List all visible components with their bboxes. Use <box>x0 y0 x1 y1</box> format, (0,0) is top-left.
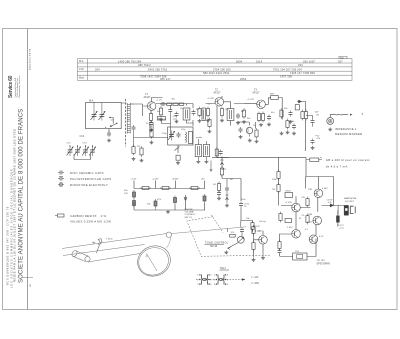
svg-text:30n: 30n <box>247 118 250 120</box>
transistor T1 <box>147 102 156 111</box>
IF transformer MF1 <box>183 108 190 120</box>
supply rail wire <box>134 181 205 189</box>
resistor R32 <box>208 118 211 129</box>
legend cap symbol 3 <box>58 183 64 187</box>
wire preamp chain <box>278 158 280 206</box>
arrow wafer <box>242 278 245 280</box>
ferrite loop antenna frame <box>86 103 122 129</box>
svg-text:2 - WW: 2 - WW <box>251 283 259 285</box>
svg-text:SW 1B: SW 1B <box>210 246 218 248</box>
bypass capacitor C4 <box>149 121 153 127</box>
capacitor C6 <box>168 108 172 114</box>
resistor R35 <box>306 197 309 208</box>
transistor T4 <box>292 203 301 212</box>
dial drum inner <box>135 243 173 279</box>
electrolytic C20 <box>336 216 339 223</box>
wire to T1 base <box>134 104 148 116</box>
capacitor C9 <box>236 113 240 119</box>
spring arrow <box>92 242 95 244</box>
wire T9 emitter ground <box>262 252 264 256</box>
dial cord line lower <box>63 245 145 256</box>
ground C13 <box>311 146 315 149</box>
svg-text:40n: 40n <box>157 111 160 113</box>
transistor T6 <box>313 216 322 225</box>
ground C10 <box>267 123 271 126</box>
svg-text:15k: 15k <box>272 189 275 191</box>
svg-text:260 1007: 260 1007 <box>303 59 315 63</box>
capacitor C5 on bus <box>160 102 166 106</box>
svg-text:T6B: T6B <box>308 214 313 216</box>
IF can B <box>203 145 209 157</box>
svg-text:10V: 10V <box>124 193 128 195</box>
resistor R10 <box>242 108 245 119</box>
svg-text:Edition Service S.A. 2/8: Edition Service S.A. 2/8 <box>29 48 32 70</box>
svg-text:40n: 40n <box>271 112 274 114</box>
svg-text:1k: 1k <box>253 125 255 127</box>
spring tensioner <box>97 239 103 253</box>
svg-text:1305 147 7305 805: 1305 147 7305 805 <box>290 71 315 75</box>
tone cap C21 <box>240 228 244 234</box>
variable capacitor gang A2 <box>74 146 81 156</box>
resistor R21 <box>217 182 220 193</box>
ground R10 <box>242 120 246 123</box>
resistor chain R27 <box>252 225 255 236</box>
svg-text:SOCIETE ANONYME AU CAPITAL DE: SOCIETE ANONYME AU CAPITAL DE 8 000 000 … <box>19 109 25 283</box>
wire bus to T2 <box>206 96 223 105</box>
bottom rail wire <box>134 202 205 210</box>
svg-text:DISC CERAMIC CAPS: DISC CERAMIC CAPS <box>70 171 104 175</box>
transistor T5 <box>314 189 323 198</box>
resistor R23 <box>277 170 280 181</box>
wire T1 collector to MF1 <box>152 98 193 127</box>
resistor R8 <box>206 107 209 118</box>
wire output <box>280 234 293 257</box>
svg-text:IMPEDANCE 1: IMPEDANCE 1 <box>335 127 357 131</box>
cord beyond pulley <box>171 227 246 234</box>
alignment data table <box>78 56 353 80</box>
resistor R2 <box>140 146 143 157</box>
capacitor C22 <box>175 112 179 118</box>
capacitor C3 <box>132 125 136 131</box>
wire driver <box>296 158 306 230</box>
svg-text:305 147: 305 147 <box>160 77 171 81</box>
resistor R5 on bus <box>179 103 184 105</box>
ground T9 emitter <box>261 256 265 259</box>
wire drops from bus <box>161 104 180 108</box>
ground R32 <box>208 130 212 133</box>
capacitor C13 <box>311 139 315 145</box>
ground R13 <box>280 132 284 135</box>
svg-text:SW 2: SW 2 <box>220 267 227 270</box>
svg-text:3761 204 207 205 204: 3761 204 207 205 204 <box>273 67 302 71</box>
capacitor C19 <box>278 249 282 255</box>
ground below R6 <box>159 118 163 121</box>
svg-text:Mod.: Mod. <box>79 77 85 80</box>
svg-text:Service 60: Service 60 <box>8 75 14 98</box>
detector transformer MF3 <box>271 96 279 100</box>
resistor R36 <box>306 214 309 225</box>
antenna coil ladder <box>127 103 130 134</box>
svg-text:CV1: CV1 <box>80 135 85 138</box>
wire to earphone socket <box>322 205 345 214</box>
mid rail wire <box>281 177 334 236</box>
table row labels <box>79 60 85 80</box>
IF can feed resistor <box>215 147 218 158</box>
table data row 5 <box>140 75 292 82</box>
svg-text:5004: 5004 <box>236 59 243 63</box>
wire T2 emitter down <box>217 106 229 158</box>
earphone socket body <box>344 205 348 215</box>
dial cord to drum <box>88 254 140 263</box>
ground below R9 <box>220 119 224 122</box>
emitter resistor R3 <box>149 112 152 123</box>
capacitor C2 <box>107 131 111 137</box>
svg-text:204: 204 <box>95 67 100 71</box>
svg-text:+1.37V: +1.37V <box>247 99 255 101</box>
tone switch arm <box>228 243 238 250</box>
wire to T3 <box>244 103 257 106</box>
svg-text:SW 1-5: SW 1-5 <box>185 217 193 219</box>
drum radial pointer <box>146 254 158 272</box>
ground T8 <box>248 139 252 142</box>
svg-text:3.9V: 3.9V <box>157 199 162 201</box>
ground C11 <box>289 120 293 123</box>
wafer pin numbers K1 left <box>197 275 199 286</box>
ground R33 <box>286 131 290 134</box>
capacitor C23 <box>239 127 243 133</box>
ground osc <box>176 161 180 164</box>
ground below C4 <box>149 129 153 132</box>
svg-text:C.M.: C.M. <box>79 68 84 71</box>
svg-text:+9V: +9V <box>201 179 205 181</box>
svg-text:X: X <box>362 112 364 116</box>
ground R16 <box>255 140 259 143</box>
ground C22 <box>175 120 179 123</box>
resistor R31 <box>150 128 153 139</box>
variable capacitor CV1b <box>99 111 106 121</box>
value labels detector <box>213 168 309 231</box>
electrolytic C15 <box>154 199 157 208</box>
svg-text:AF117: AF117 <box>144 96 152 99</box>
oscillator feedback coil box <box>157 117 165 120</box>
diode D3 <box>220 160 223 165</box>
svg-text:100n: 100n <box>241 199 245 201</box>
wire D3 <box>221 157 223 168</box>
svg-text:GB a 200 Ω pour un courant: GB a 200 Ω pour un courant <box>326 158 370 162</box>
ground C18 <box>217 197 221 200</box>
svg-text:2054: 2054 <box>240 77 247 81</box>
variable capacitor CV1a <box>91 111 98 121</box>
oscillator tank box <box>168 127 193 145</box>
footer line <box>22 276 33 278</box>
svg-text:+1.45V: +1.45V <box>285 202 293 204</box>
transistor T4b <box>292 230 301 239</box>
svg-text:CARBON RESIST. . 0 %: CARBON RESIST. . 0 % <box>70 214 107 218</box>
svg-text:RCS DUNKERQUE B 802 047 508 -: RCS DUNKERQUE B 802 047 508 - CCP 130 76 <box>6 206 10 285</box>
underline sw2 <box>220 269 230 271</box>
wire MF1 top <box>183 104 193 109</box>
top supply bus wire <box>156 103 183 105</box>
transistor T3 <box>257 100 266 109</box>
output transformer box <box>293 253 307 260</box>
resistor R7 <box>198 107 201 118</box>
svg-text:7.5mm: 7.5mm <box>106 239 113 241</box>
resistor R19 <box>189 187 200 190</box>
resistor R25 box <box>285 193 293 198</box>
legend resistor lead <box>55 215 58 217</box>
ground rail <box>166 210 170 213</box>
ground IF can B <box>204 160 208 163</box>
svg-text:LES SOCIETES COMMERCIALES SIEG: LES SOCIETES COMMERCIALES SIEGE SOCIAL D… <box>9 168 13 288</box>
tuning shaft cylinder <box>71 250 90 262</box>
ground R11 <box>259 123 263 126</box>
wire detector out <box>303 102 306 152</box>
wire IF can A <box>197 139 199 160</box>
tone resistor R30 <box>230 234 236 237</box>
ground IF can A <box>196 160 200 163</box>
svg-text:M.A.: M.A. <box>89 100 94 103</box>
resistor R33 <box>286 119 289 130</box>
svg-text:580 4621 4321 2521: 580 4621 4321 2521 <box>203 71 230 75</box>
resistor R29 <box>278 240 281 251</box>
wire antenna to switch <box>109 103 127 132</box>
dial cord line upper <box>62 234 166 249</box>
ground C9 <box>236 121 240 124</box>
diode D1 <box>297 100 303 103</box>
socket notch <box>345 208 347 211</box>
coil core box <box>189 132 193 144</box>
capacitor C26 <box>239 202 243 208</box>
legend resistor symbol <box>58 214 65 217</box>
detector top wire <box>212 156 306 158</box>
svg-text:OA79: OA79 <box>221 168 227 171</box>
svg-text:POLYESTER/MYLAR CAPS: POLYESTER/MYLAR CAPS <box>70 177 111 181</box>
capacitor C10 <box>267 115 271 121</box>
wire bob osc <box>162 114 171 138</box>
switch arrow S1b <box>116 123 117 124</box>
svg-text:ON: ON <box>317 138 321 140</box>
dashed link to tone control <box>212 215 224 233</box>
svg-text:M.A.: M.A. <box>79 60 84 63</box>
wire to speaker <box>307 239 316 257</box>
wafer K1 <box>199 274 210 285</box>
tone pot circle <box>237 236 244 243</box>
wire MF3 <box>265 98 282 120</box>
svg-text:+-0.5: +-0.5 <box>339 227 345 229</box>
variable capacitor CV2 <box>168 131 175 141</box>
capacitor C11 <box>289 111 293 117</box>
ground below R8 <box>206 119 210 122</box>
svg-text:2764 206 205: 2764 206 205 <box>213 67 231 71</box>
resistor R6 <box>159 106 162 117</box>
tone switch ground <box>224 251 228 254</box>
svg-text:+1.3V: +1.3V <box>131 179 137 181</box>
resistor R26 box <box>285 219 292 223</box>
wire osc to ground <box>177 145 179 153</box>
wafer pin numbers K2 left <box>214 275 216 286</box>
volume link arrow <box>210 161 212 172</box>
svg-text:T. 85V: T. 85V <box>255 230 262 233</box>
wafer dashed link <box>196 279 245 281</box>
svg-text:15k: 15k <box>137 146 140 148</box>
svg-text:TONE CONTROL: TONE CONTROL <box>205 241 229 244</box>
junction dot detector <box>221 157 222 158</box>
svg-text:100k: 100k <box>272 179 276 181</box>
svg-text:4.35V: 4.35V <box>322 188 328 190</box>
svg-text:de 4,5 a 7 mA: de 4,5 a 7 mA <box>326 164 348 168</box>
wafer pin numbers K2 right <box>227 275 229 286</box>
ground below C2 <box>107 139 111 142</box>
svg-text:EARPHONE: EARPHONE <box>344 197 357 200</box>
svg-text:10k log: 10k log <box>259 221 265 223</box>
cord arrow <box>350 114 353 116</box>
IF can A <box>195 145 201 157</box>
table data row 3 <box>95 67 302 71</box>
svg-text:1400 280 760 284: 1400 280 760 284 <box>118 59 142 63</box>
note resistor symbol <box>310 158 319 161</box>
svg-text:+1.2V: +1.2V <box>156 100 162 102</box>
svg-text:1.35V: 1.35V <box>287 227 293 229</box>
IF transformer MF1b tall <box>202 108 205 120</box>
wire MF2 <box>224 102 245 126</box>
tone pot arrow <box>238 237 244 242</box>
svg-text:padder: padder <box>196 137 203 139</box>
svg-text:MINIATURE ELECTROLY: MINIATURE ELECTROLY <box>70 183 108 187</box>
resistor R12 <box>261 112 264 123</box>
diode D2 <box>184 195 187 204</box>
resistor R26b <box>279 212 282 223</box>
svg-text:DET: DET <box>270 94 275 96</box>
resistor R17 <box>140 187 151 190</box>
wire C20 <box>337 211 339 227</box>
svg-text:B120: B120 <box>286 191 292 193</box>
diode D5 <box>329 204 334 207</box>
transistor T8 agc <box>246 127 252 133</box>
svg-text:+6.85V: +6.85V <box>172 179 180 181</box>
table data row 1 <box>118 59 343 63</box>
variable capacitor gang B2 <box>89 146 96 156</box>
band switch dashed line <box>125 99 127 147</box>
svg-text:5402 256 3761: 5402 256 3761 <box>148 67 168 71</box>
resistor R1 <box>132 145 135 156</box>
earphone cord squiggle <box>330 114 348 117</box>
transistor T9 preout <box>259 236 268 245</box>
electrolytic C17 <box>203 194 206 203</box>
IF transformer MF2 <box>227 109 234 121</box>
svg-text:56k: 56k <box>291 121 294 123</box>
svg-text:1 - UW: 1 - UW <box>251 277 259 279</box>
resistor R15 <box>304 110 307 121</box>
variable capacitor gang B1 <box>82 146 89 156</box>
resistor R4 on bus <box>167 103 172 105</box>
capacitor C18 <box>217 191 221 197</box>
resistor R11 <box>257 112 260 123</box>
resistor R20 <box>220 166 223 177</box>
resistor R31b <box>150 121 153 132</box>
resistor R14 <box>301 110 304 121</box>
wire T9 <box>254 231 264 258</box>
sidebar divider line <box>27 29 29 310</box>
svg-text:4.2V: 4.2V <box>319 236 324 238</box>
gang bottom bus wire <box>70 145 93 160</box>
volume pot R22 <box>251 221 254 232</box>
svg-text:47k: 47k <box>231 232 234 234</box>
note resistor leads <box>307 157 322 160</box>
IF can feed cap <box>219 150 223 156</box>
table data row 2 <box>138 63 303 67</box>
electrolytic C16 <box>174 196 177 205</box>
svg-text:SOCKET: SOCKET <box>345 201 355 203</box>
dial drum outer <box>133 241 175 281</box>
wafer K2 <box>216 274 227 285</box>
wire R20 down <box>222 175 253 221</box>
wire C12 <box>306 116 313 127</box>
underline <box>205 243 225 245</box>
diode D6 <box>226 195 229 200</box>
capacitor C24 <box>292 124 296 130</box>
wire C25 D6 <box>226 179 228 204</box>
switch arrow S1a <box>110 124 116 127</box>
svg-text:AF117: AF117 <box>214 92 222 95</box>
capacitor C25 <box>225 186 229 192</box>
svg-text:Documentation Technique: Documentation Technique <box>18 76 21 98</box>
table data row 4 <box>203 71 315 75</box>
cord wrap from pulley to drum <box>166 237 171 248</box>
svg-text:1014: 1014 <box>256 59 263 63</box>
coil L4 box <box>295 105 299 110</box>
oscillator coil L3 <box>185 132 188 142</box>
value labels top section <box>137 99 294 149</box>
svg-text:MEDIUM MARKER: MEDIUM MARKER <box>335 132 362 136</box>
capacitor C12 <box>311 119 315 125</box>
ground C23 <box>239 135 243 138</box>
wire tone <box>228 221 243 237</box>
svg-text:234: 234 <box>298 63 303 67</box>
transistor T7 <box>309 235 318 244</box>
resistor R34 <box>176 155 180 160</box>
ground R28 <box>252 258 256 261</box>
dashed enclosure <box>187 217 270 256</box>
ground D6 <box>225 204 229 207</box>
svg-text:280 760.2: 280 760.2 <box>138 63 151 67</box>
resistor R13 <box>280 108 283 119</box>
ground below jack <box>328 128 332 131</box>
svg-text:207: 207 <box>338 59 343 63</box>
legend cap symbol 1 <box>58 171 64 175</box>
electrolytic C14b <box>133 199 136 208</box>
resistor R16 <box>255 128 258 139</box>
svg-text:+1.25V: +1.25V <box>207 98 215 100</box>
svg-text:+1.25V: +1.25V <box>152 179 160 181</box>
wire C3 to R1 <box>134 131 168 147</box>
svg-text:SPST/SPKR: SPST/SPKR <box>317 262 331 265</box>
variable capacitor gang A1 <box>67 146 74 156</box>
electrolytic C14 <box>133 190 136 199</box>
svg-text:AF117: AF117 <box>253 92 261 95</box>
resistor R28 <box>252 241 255 252</box>
resistor R9 <box>220 107 223 118</box>
svg-text:VALUES 0.25W # MO 1/2W: VALUES 0.25W # MO 1/2W <box>70 219 111 223</box>
svg-text:10n: 10n <box>180 108 183 110</box>
ground below R7 <box>198 119 202 122</box>
resistor R4b on bus <box>173 103 178 105</box>
transformer inner <box>297 255 303 259</box>
ground below R1 <box>132 157 136 160</box>
legend cap symbol 2 <box>58 177 64 181</box>
ground R31 <box>150 141 154 144</box>
switch arrow S2 <box>175 147 180 151</box>
wire IF can B <box>205 141 207 160</box>
